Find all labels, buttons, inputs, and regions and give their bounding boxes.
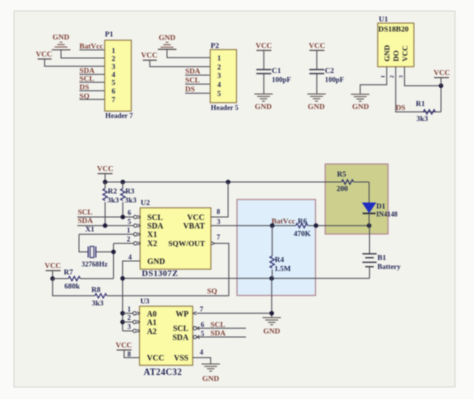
net label SDA + wire to U2 pin 5 (77, 216, 133, 226)
svg-text:6: 6 (128, 209, 132, 217)
svg-text:P2: P2 (211, 41, 220, 50)
junction WP / ground vertical (269, 311, 274, 316)
net label SDA + wire to P1 pin 4 (79, 66, 104, 75)
ground below U1 (351, 94, 369, 111)
junction (U1 VCC / R1 / VCC) (439, 83, 444, 88)
svg-text:VSS: VSS (174, 354, 189, 363)
svg-text:VCC: VCC (141, 51, 157, 60)
svg-text:WP: WP (176, 309, 189, 318)
wire C1 to GND (263, 74, 265, 94)
svg-text:SCL: SCL (173, 324, 189, 333)
wire VCC to P1 pin 3 (45, 59, 105, 66)
annotation box (olive region around R5/D1) (325, 164, 388, 234)
svg-text:GND: GND (352, 102, 369, 111)
ground below C1 (254, 94, 272, 111)
svg-text:AT24C32: AT24C32 (144, 367, 183, 377)
svg-text:32768Hz: 32768Hz (82, 261, 108, 269)
svg-text:7: 7 (200, 305, 204, 313)
wire VCC to C2 (316, 50, 318, 69)
svg-text:Header 7: Header 7 (105, 112, 133, 120)
wire U1 pin2 (DO) down to DS net (396, 67, 441, 112)
svg-text:2: 2 (389, 75, 395, 78)
diode D1 IN4148 (363, 201, 399, 225)
svg-text:DS1307Z: DS1307Z (142, 268, 178, 278)
ground (power symbol above P2 pin 1) (158, 33, 177, 49)
power VCC (left of P1) (36, 50, 52, 59)
power VCC (left of U3 pin 8) (116, 340, 140, 358)
svg-text:3k3: 3k3 (125, 195, 137, 204)
svg-text:2: 2 (127, 314, 131, 322)
power VCC above C1 (256, 41, 272, 51)
svg-text:1: 1 (127, 305, 131, 313)
svg-text:470K: 470K (294, 229, 311, 238)
junction BatVcc at blue box edge (314, 223, 319, 228)
svg-text:Header 5: Header 5 (211, 104, 239, 112)
U3 pin 5 (SDA) wire + decoration + net label (193, 329, 246, 339)
svg-text:VCC: VCC (45, 261, 61, 270)
svg-text:X1: X1 (147, 230, 157, 239)
resistor R4 1.5M (270, 226, 291, 279)
wire GND to P2 pin 1 (167, 49, 210, 57)
ground below C2 (307, 94, 325, 111)
connector P2 (Header 5) (210, 41, 239, 112)
junction SCL / R3 (121, 215, 126, 220)
svg-text:D1: D1 (376, 201, 385, 210)
wire R8 to SQ corner (107, 295, 229, 297)
svg-text:5: 5 (217, 89, 221, 98)
net label SDA + wire to P2 pin 3 (185, 67, 210, 76)
svg-text:X2: X2 (147, 239, 157, 248)
resistor R7 680k (53, 267, 114, 290)
svg-text:B1: B1 (377, 253, 386, 262)
svg-text:3: 3 (217, 218, 221, 226)
junction rail / U2 pin4 vertical (120, 276, 125, 281)
connector P1 (Header 7) (105, 30, 134, 121)
svg-text:VCC: VCC (256, 41, 272, 50)
svg-text:P1: P1 (105, 30, 114, 39)
svg-text:U2: U2 (141, 198, 150, 207)
U2 pin 2 decoration (127, 235, 140, 245)
svg-text:SCL: SCL (210, 320, 225, 329)
junction R3 top (121, 180, 126, 185)
battery B1 (362, 253, 401, 271)
svg-text:8: 8 (217, 208, 221, 216)
U3 pin 7 (WP) wire + arrow (193, 305, 272, 315)
wire rail down to WP/GND (271, 278, 273, 317)
svg-text:IN4148: IN4148 (376, 212, 398, 219)
svg-text:Battery: Battery (377, 263, 401, 271)
svg-text:VCC: VCC (116, 340, 132, 349)
junction R2 top (103, 180, 108, 185)
net label SCL + wire to U2 pin 6 (77, 207, 133, 217)
svg-text:1: 1 (380, 75, 386, 78)
power VCC (above R2/R3) (97, 164, 113, 182)
svg-text:8: 8 (127, 350, 131, 358)
svg-text:GND: GND (263, 326, 280, 335)
svg-text:GND: GND (255, 102, 272, 111)
svg-text:VBAT: VBAT (183, 221, 205, 230)
U3 pin 3 (A2) wire + decoration (123, 323, 140, 333)
svg-text:VCC: VCC (434, 68, 450, 77)
junction VCC rail / U2 pin8 (226, 180, 231, 185)
svg-text:680k: 680k (64, 282, 80, 291)
resistor R1 3k3 (416, 99, 436, 123)
U2 pin 1 decoration (127, 227, 140, 237)
svg-text:U3: U3 (140, 297, 149, 306)
power VCC (left of P2) (141, 51, 157, 61)
power VCC above C2 (309, 41, 325, 51)
svg-text:GND: GND (159, 33, 176, 42)
svg-text:SQW/OUT: SQW/OUT (168, 239, 206, 248)
svg-text:GND: GND (308, 102, 325, 111)
ground below U3 VSS (202, 364, 220, 383)
svg-text:DS: DS (396, 103, 406, 112)
net label SCL + wire to P2 pin 4 (185, 76, 210, 85)
svg-text:R1: R1 (416, 99, 425, 108)
svg-text:SDA: SDA (210, 329, 226, 338)
svg-text:SDA: SDA (185, 67, 201, 76)
svg-text:R5: R5 (337, 169, 346, 178)
svg-text:3k3: 3k3 (92, 298, 104, 307)
svg-text:BatVcc: BatVcc (272, 216, 296, 225)
net label DS + wire to P1 pin 6 (79, 83, 104, 92)
net label SQ + wire to P1 pin 7 (79, 91, 104, 100)
svg-text:C1: C1 (272, 66, 281, 75)
wire C2 to GND (316, 74, 318, 94)
svg-text:A2: A2 (147, 327, 157, 336)
svg-text:SQ: SQ (207, 287, 217, 296)
resistor R3 3k3 (121, 182, 137, 217)
net label DS + wire to P2 pin 5 (185, 85, 210, 94)
capacitor C1 100pF (256, 66, 291, 84)
wire GND to P1 pin 2 (61, 50, 105, 58)
U2 pin 7 (SQW/OUT) number + arrow + wire (211, 233, 229, 295)
junction crystal/X2/R7 (111, 250, 116, 255)
svg-text:GND: GND (202, 374, 219, 383)
resistor R2 3k3 (103, 182, 119, 226)
junction BatVcc / R4 top (270, 223, 275, 228)
svg-text:3k3: 3k3 (416, 114, 428, 123)
ground (below rail, right of U3) (263, 318, 281, 336)
svg-text:SCL: SCL (185, 76, 200, 85)
svg-text:DO: DO (392, 50, 401, 61)
svg-text:2: 2 (127, 235, 131, 243)
wire R1 up to VCC (405, 67, 442, 112)
svg-text:U1: U1 (379, 14, 388, 23)
svg-text:100pF: 100pF (272, 76, 292, 84)
svg-text:1: 1 (217, 53, 221, 62)
IC U2 DS1307Z (140, 198, 211, 278)
IC U1 DS18B20 (378, 14, 414, 66)
U3 pin 6 (SCL) wire + decoration + net label (193, 320, 246, 330)
U2 pin 4 (GND) number + wire (123, 253, 141, 331)
resistor R5 200 (337, 169, 370, 192)
svg-text:C2: C2 (325, 66, 334, 75)
wire battery to ground rail (369, 267, 371, 279)
svg-text:7: 7 (217, 233, 221, 241)
ground (power symbol above P1 pin 2) (52, 33, 71, 50)
wire crystal to X2 pin and down (96, 243, 134, 278)
junction A1 (120, 320, 125, 325)
svg-text:VCC: VCC (400, 45, 409, 61)
wire VCC to P2 pin 2 (150, 60, 210, 66)
U2 pin 5 decoration (128, 218, 141, 228)
IC U3 AT24C32 (140, 297, 193, 377)
svg-text:4: 4 (200, 349, 204, 357)
wire U1 pin1 to ground (360, 67, 387, 94)
svg-text:5: 5 (128, 218, 132, 226)
svg-text:1: 1 (127, 227, 131, 235)
svg-text:3: 3 (398, 75, 404, 78)
power VCC (left, near R7) (45, 261, 61, 278)
resistor R6 470K (294, 216, 370, 238)
svg-text:VCC: VCC (97, 164, 113, 173)
svg-text:A0: A0 (147, 309, 157, 318)
U2 pin 8 number + wire to VCC rail (211, 182, 228, 217)
svg-text:100pF: 100pF (325, 76, 345, 84)
svg-text:X1: X1 (85, 225, 94, 234)
svg-text:DS: DS (185, 85, 195, 94)
power VCC (right of U1) (434, 68, 450, 86)
svg-text:1.5M: 1.5M (274, 264, 290, 273)
svg-text:GND: GND (383, 45, 392, 61)
junction SDA / R2 (103, 223, 108, 228)
U3 pin 1 (A0) wire + decoration (123, 305, 140, 315)
wire VCC rail to R5 (105, 181, 341, 183)
U3 pin 4 (VSS) wire to ground (193, 349, 211, 364)
wire VCC to C1 (263, 50, 265, 69)
svg-text:R2: R2 (108, 186, 117, 195)
svg-text:GND: GND (147, 257, 165, 266)
svg-text:4: 4 (217, 80, 221, 89)
svg-text:R4: R4 (275, 255, 284, 264)
svg-text:3: 3 (217, 71, 221, 80)
U2 pin 6 decoration (128, 209, 141, 219)
annotation box (light blue region around R4/R6) (237, 200, 316, 296)
svg-text:R7: R7 (64, 267, 73, 276)
wire VCC node down to R8 (53, 279, 95, 296)
capacitor C2 100pF (309, 66, 344, 84)
wire R5 down to D1 (368, 182, 370, 203)
wire D1 node down to battery (369, 226, 371, 254)
svg-text:200: 200 (337, 184, 349, 193)
svg-text:3: 3 (127, 323, 131, 331)
svg-text:3k3: 3k3 (107, 195, 119, 204)
svg-text:A1: A1 (147, 318, 157, 327)
svg-text:SDA: SDA (172, 333, 188, 342)
junction VCC/R7/R8 (50, 276, 55, 281)
junction A0 (120, 311, 125, 316)
svg-text:4: 4 (128, 253, 132, 261)
net label SCL + wire to P1 pin 5 (79, 74, 104, 83)
net label BatVcc + wire to P1 pin 1 (79, 42, 104, 51)
svg-text:VCC: VCC (36, 50, 52, 59)
junction BatVcc / D1 / B1 (367, 223, 372, 228)
resistor R8 3k3 (91, 285, 106, 307)
wire ground rail (123, 277, 370, 279)
wire X1 pin1 (79, 234, 134, 252)
crystal X1 32768Hz (82, 225, 108, 269)
svg-text:GND: GND (53, 33, 70, 42)
svg-text:7: 7 (112, 95, 116, 104)
U2 pin 3 (VBAT) number + wire BatVcc (211, 218, 296, 226)
svg-text:VCC: VCC (309, 41, 325, 50)
svg-text:DS18B20: DS18B20 (378, 25, 408, 34)
svg-text:R3: R3 (125, 186, 134, 195)
U3 pin 2 (A1) wire + decoration (123, 314, 140, 324)
svg-text:VCC: VCC (147, 354, 165, 363)
junction rail / R4 bottom (269, 276, 274, 281)
svg-text:SDA: SDA (147, 221, 163, 230)
svg-text:BatVcc: BatVcc (79, 42, 103, 51)
